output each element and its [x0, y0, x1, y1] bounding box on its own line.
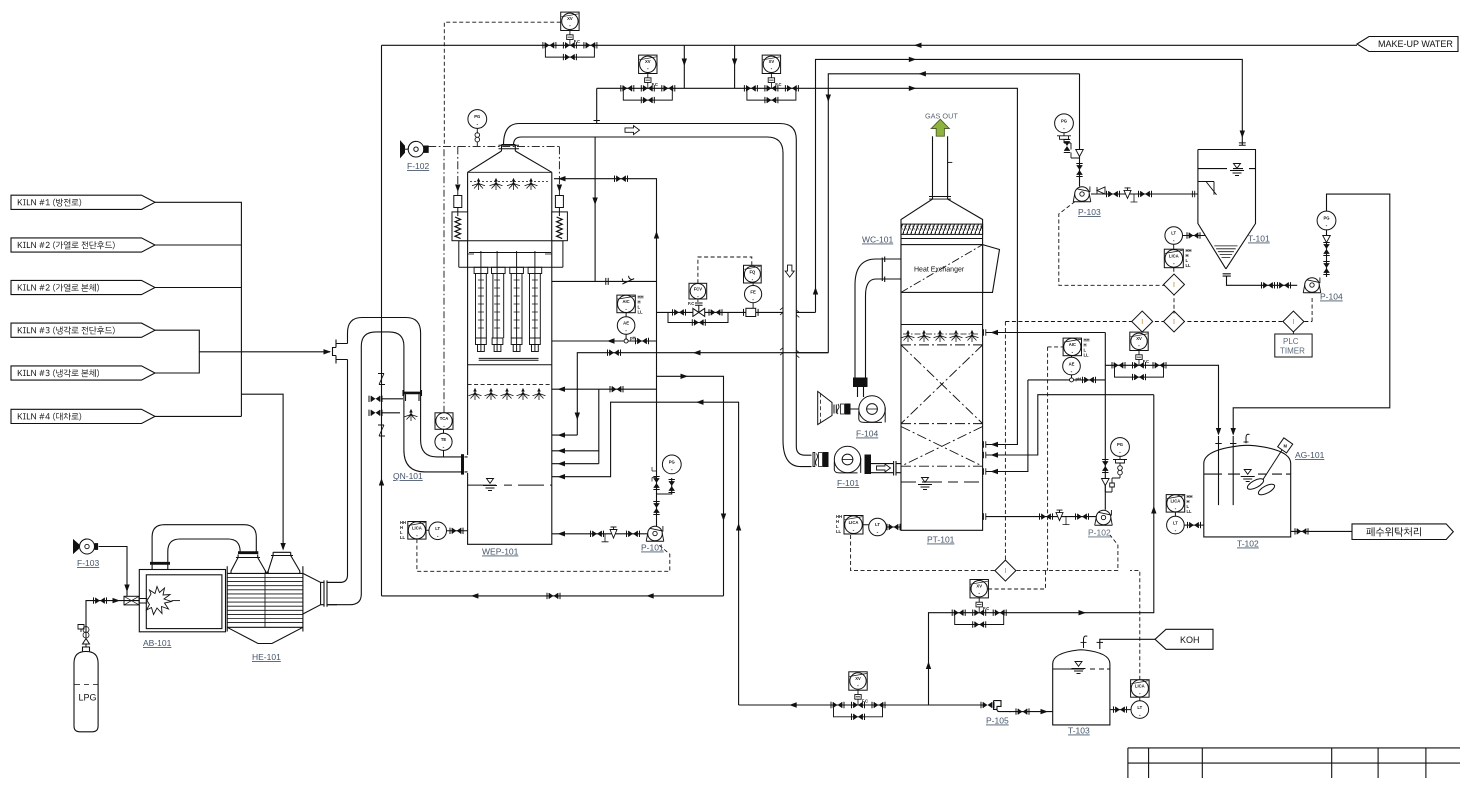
LPG cylinder: [74, 647, 98, 732]
instrument TE: [435, 433, 452, 450]
agitator AG-101: [1246, 438, 1293, 497]
valve XV-2 assembly: [621, 55, 675, 103]
svg-text:PLC: PLC: [1283, 337, 1299, 346]
svg-text:LICA: LICA: [1135, 684, 1145, 689]
wire P-102 riser: [1104, 333, 1106, 510]
instrument PG P-103: [1055, 114, 1074, 133]
wire y376.3 to drain: [657, 376, 724, 596]
svg-text:AE: AE: [1069, 361, 1075, 366]
PT spray row: [901, 324, 983, 326]
wire T-101 outlet to P-104: [1262, 282, 1275, 288]
svg-text:P-105: P-105: [986, 716, 1009, 726]
interlock diamonds: [1005, 321, 1312, 323]
wire spray water line y88.3: [597, 88, 1018, 444]
WEP shell: [468, 145, 552, 545]
spray header row top: [470, 181, 549, 183]
svg-text:PG: PG: [1117, 442, 1123, 447]
instrument PG wep top: [468, 110, 487, 129]
instrument FE: [745, 286, 762, 303]
instrument LICA wep: [408, 522, 426, 540]
wire T-102 outlet to flag: [1291, 530, 1352, 532]
valve XV-5 assembly: [952, 580, 1006, 628]
svg-text:MAKE-UP WATER: MAKE-UP WATER: [1378, 39, 1453, 49]
svg-text:LT: LT: [875, 522, 880, 527]
tank T-102: [1204, 445, 1291, 537]
svg-text:FE: FE: [750, 289, 756, 294]
wire y402.2 KOH line to WEP: [552, 402, 739, 705]
wire XV-4 KOH/blowdown line y365.3: [1105, 365, 1218, 434]
electrode tubes x4: [474, 251, 542, 352]
svg-text:P-103: P-103: [1078, 207, 1101, 217]
svg-text:QN-101: QN-101: [393, 471, 423, 481]
duct WEP to F-101: [499, 124, 812, 467]
svg-text:KOH: KOH: [1180, 635, 1200, 645]
instrument PG P-101: [662, 455, 681, 474]
instrument LICA T-103: [1131, 680, 1150, 698]
svg-text:LT: LT: [1173, 520, 1178, 525]
AB outlet arch duct: [150, 525, 258, 570]
instrument LT T-101: [1165, 227, 1183, 245]
spray row lower: [469, 388, 482, 400]
svg-text:pH: pH: [1076, 377, 1082, 382]
instrument AE wep: [617, 317, 635, 335]
svg-text:P-104: P-104: [1320, 292, 1343, 302]
wire branch taps to y88.3: [684, 45, 734, 88]
wire drain header y595.9: [382, 595, 724, 597]
flag MAKE-UP WATER: [1357, 37, 1458, 52]
svg-text:F-104: F-104: [856, 429, 878, 439]
HE right outlet cone: [303, 573, 342, 614]
svg-text:F-102: F-102: [407, 161, 429, 171]
wire WEP recycle to T-101 y59.4: [816, 59, 1243, 312]
svg-text:LL: LL: [1187, 509, 1193, 514]
svg-text:AG-101: AG-101: [1295, 450, 1325, 460]
wire bottom KOH line y705: [739, 704, 986, 706]
node quench inlet nozzle: [333, 340, 348, 364]
hollow flow arrows in duct: [625, 126, 794, 278]
wire P-104 riser: [1233, 194, 1390, 434]
exchanger WC-101: [882, 245, 999, 293]
svg-text:TE: TE: [441, 437, 447, 442]
svg-text:LT: LT: [1137, 705, 1142, 710]
instrument AIC pt: [1063, 338, 1082, 356]
valve quench spray taps: [369, 396, 382, 402]
wire arrow into quench inlet: [324, 349, 332, 354]
pump P-105: [981, 702, 994, 708]
valve XV-6 assembly: [831, 672, 885, 720]
duct F-101 discharge: [865, 455, 872, 475]
svg-text:PT-101: PT-101: [927, 535, 955, 545]
svg-text:WEP-101: WEP-101: [482, 547, 519, 557]
instrument LT T-103: [1131, 701, 1149, 719]
bypass fcv: [668, 312, 728, 322]
wire dashed P-103 interlock: [1059, 202, 1165, 286]
instrument LT T-102: [1167, 516, 1185, 534]
quench water header: [403, 390, 422, 401]
wire KOH feed to PT y455: [986, 395, 1154, 455]
pump P-101: [646, 526, 664, 541]
svg-text:AB-101: AB-101: [143, 638, 172, 648]
svg-text:F-101: F-101: [837, 478, 859, 488]
svg-text:Heat Exchanger: Heat Exchanger: [914, 267, 965, 274]
fan F-102: [401, 141, 429, 157]
wire y389 line: [552, 388, 657, 390]
wire y450.8 + y463.7 feeds: [552, 389, 599, 451]
valve XV-1 assembly: [543, 12, 597, 60]
wire KOH flag to tank: [1100, 639, 1155, 649]
wire pH line PT: [1028, 379, 1105, 381]
wire dash-dot HV circuit: [428, 146, 560, 195]
wire P-101 suction: [552, 533, 648, 535]
wire dashed LICA to P-101: [417, 539, 670, 571]
wire arrow down into HE funnel: [280, 543, 285, 551]
wire x595 drop: [594, 137, 596, 281]
section lines: [468, 364, 552, 366]
valve regulator on LPG: [78, 625, 90, 648]
svg-text:AE: AE: [623, 321, 629, 326]
PT liquid level: [901, 481, 979, 483]
liquid level WEP: [468, 484, 552, 486]
svg-text:AIC: AIC: [1069, 342, 1076, 347]
wire pH probe line: [552, 340, 657, 342]
PLC TIMER box: [1275, 334, 1312, 357]
flag KILN #2b: [11, 280, 155, 294]
flag KILN #3a: [11, 323, 155, 337]
instrument AIC wep: [617, 295, 636, 313]
svg-text:PG: PG: [669, 460, 675, 465]
svg-text:F.C: F.C: [688, 301, 694, 306]
pump P-104: [1303, 278, 1321, 293]
wire P-101 discharge riser: [554, 179, 672, 527]
svg-text:LICA: LICA: [1171, 499, 1181, 504]
svg-text:AIC: AIC: [622, 299, 629, 304]
flag KILN #3b: [11, 366, 155, 380]
wire y352.7 right of duct: [796, 352, 828, 354]
pump P-102: [1095, 510, 1113, 525]
stack GAS OUT: [931, 119, 949, 136]
instrument LT pt: [869, 518, 887, 536]
demister band: [901, 224, 983, 234]
flag KILN #4: [11, 409, 155, 423]
instrument LICA T-102: [1166, 495, 1185, 512]
instrument TCA: [435, 413, 453, 430]
svg-text:T-101: T-101: [1248, 234, 1270, 244]
F-104 suction bell: [818, 391, 859, 424]
insulator housing right: [552, 196, 568, 241]
fan F-104: [859, 396, 885, 423]
flow element: [744, 308, 759, 316]
wire dashed LICA T-103 up: [1130, 571, 1140, 680]
blower F-103: [74, 539, 99, 554]
svg-text:LT: LT: [435, 526, 440, 531]
svg-text:HE-101: HE-101: [252, 652, 281, 662]
insulator housing left: [452, 196, 468, 241]
wire LPG to burner: [86, 601, 139, 629]
svg-text:LL: LL: [836, 529, 842, 534]
duct crossing break marks: [780, 307, 799, 357]
valve XV-4 assembly: [1112, 332, 1166, 380]
instrument LICA pt: [844, 516, 863, 535]
instrument AE pt: [1063, 357, 1081, 375]
svg-text:LL: LL: [638, 310, 644, 315]
burner AB-101: [139, 570, 225, 632]
wire dashed T-101 interlock chain: [1173, 268, 1175, 314]
instrument LICA T-101: [1164, 249, 1183, 268]
instrument FQ: [744, 265, 762, 283]
svg-text:LL: LL: [1186, 263, 1192, 268]
wire quench water drop line x381.5: [382, 45, 404, 596]
flag KOH: [1155, 629, 1213, 649]
svg-text:LICA: LICA: [412, 526, 422, 531]
svg-text:pH: pH: [630, 336, 636, 341]
svg-text:F-103: F-103: [77, 558, 99, 568]
HE bottom hopper: [227, 627, 303, 643]
flame symbol: [139, 599, 147, 604]
vent hook T-102: [1246, 434, 1250, 443]
svg-text:M: M: [1283, 443, 1287, 448]
wire P-103 lines: [1079, 74, 1081, 187]
svg-text:FQ: FQ: [749, 269, 756, 274]
svg-text:LL: LL: [400, 535, 406, 540]
svg-text:TIMER: TIMER: [1280, 347, 1305, 356]
instrument PG P-102: [1111, 438, 1130, 457]
instrument PG P-104: [1317, 211, 1336, 230]
wire F-103 air to burner: [99, 547, 127, 597]
svg-text:PG: PG: [474, 114, 480, 119]
HE-101 tube box: [227, 566, 303, 631]
fan F-101: [834, 446, 860, 473]
collector bar: [479, 358, 539, 360]
svg-text:T-102: T-102: [1237, 539, 1259, 549]
wire dashed web PT: [851, 322, 1118, 571]
wire P-103 recycle y73.8: [828, 74, 1079, 353]
flag waste water: [1352, 524, 1453, 540]
duct F-104 to WC-101: [855, 259, 885, 397]
svg-text:PG: PG: [1323, 216, 1329, 221]
tank T-103: [1053, 650, 1110, 725]
duct QN-101 quench (riser + arch + downleg + outlet): [327, 318, 468, 605]
wire P-102 suction: [986, 516, 1096, 518]
svg-text:GAS OUT: GAS OUT: [925, 112, 958, 121]
wire upper-mid tap y281.4: [552, 280, 657, 282]
svg-text:LICA: LICA: [849, 520, 859, 525]
wire PT feed y444.5: [986, 380, 1028, 472]
svg-text:LPG: LPG: [79, 693, 97, 703]
wire T-102 feed dip pipes: [1219, 436, 1234, 505]
svg-text:FCV: FCV: [694, 286, 703, 291]
instrument FCV sq: [689, 283, 707, 299]
pump P-103: [1073, 187, 1091, 202]
flag KILN #2a: [11, 238, 155, 252]
wire make-up water main y45.3: [382, 44, 1358, 46]
wire dashed XV1 signal: [444, 22, 560, 146]
HE-101 funnels: [231, 552, 300, 573]
valve XV-3 assembly: [744, 55, 798, 103]
valve FCV: [688, 301, 705, 316]
svg-text:LT: LT: [1171, 231, 1176, 236]
svg-text:LICA: LICA: [1169, 254, 1179, 259]
svg-text:WC-101: WC-101: [862, 235, 893, 245]
spray in quench: [405, 409, 418, 421]
svg-text:LL: LL: [1084, 353, 1090, 358]
vent hook T-103: [1084, 636, 1088, 648]
flag KILN #1: [11, 195, 155, 209]
wire y352.7 line: [552, 353, 829, 435]
svg-text:TCA: TCA: [440, 416, 449, 421]
svg-text:P-101: P-101: [641, 543, 664, 553]
svg-text:P-102: P-102: [1088, 528, 1111, 538]
wire KOH riser x1153.8: [929, 395, 1154, 705]
PT packing X1: [901, 345, 983, 466]
flame arrestor: [124, 596, 139, 605]
wire kiln collector: [155, 202, 330, 549]
wire PT spray feed y332.5: [986, 332, 1105, 334]
svg-text:PG: PG: [1061, 119, 1067, 124]
svg-text:T-103: T-103: [1068, 726, 1090, 736]
instrument LT wep: [429, 522, 447, 540]
support ring lines: [468, 253, 552, 255]
collar band: [459, 241, 563, 268]
